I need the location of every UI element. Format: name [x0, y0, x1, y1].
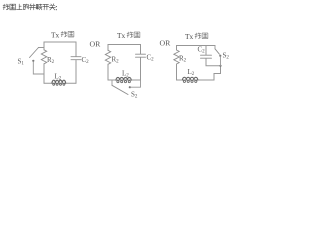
capacitor C2 (circuit 2) — [136, 54, 146, 57]
resistor R2 (circuit 1) — [41, 50, 46, 64]
capacitor C2 (circuit 3) — [201, 55, 212, 58]
wire right rail upper (circuit 1) — [75, 42, 77, 56]
capacitor C2 (circuit 1) — [71, 57, 81, 60]
wire right rail lower (circuit 1) — [75, 60, 77, 83]
svg-text:R2: R2 — [179, 54, 187, 63]
svg-text:C2: C2 — [198, 45, 206, 54]
wire top rail (circuit 1) — [44, 41, 76, 43]
svg-text:Tx: Tx — [185, 32, 194, 41]
wire C2 bottom connector (circuit 3) — [206, 59, 221, 66]
svg-text:R2: R2 — [47, 56, 55, 65]
wire top rail (circuit 3) — [177, 45, 216, 47]
svg-text:Tx: Tx — [117, 31, 126, 40]
label Tx 线圈 (circuit 1) — [51, 30, 74, 39]
switch S2 (circuit 3) — [215, 46, 221, 66]
capacitor C2 branch stub (circuit 3) — [205, 46, 207, 55]
inductor L2 (circuit 1) — [52, 80, 66, 83]
svg-text:S2: S2 — [131, 91, 138, 100]
inductor L2 (circuit 3) — [183, 77, 198, 80]
resistor R2 (circuit 3) — [174, 50, 179, 64]
wire top rail (circuit 2) — [108, 44, 141, 46]
svg-text:S2: S2 — [223, 51, 230, 60]
inductor L2 (circuit 2) — [116, 77, 131, 80]
wire bottom rail left (circuit 3) — [177, 66, 221, 80]
svg-text:OR: OR — [90, 40, 102, 49]
wire right rail upper (circuit 2) — [140, 45, 142, 54]
svg-text:S1: S1 — [18, 57, 25, 66]
wire bottom rail left (circuit 1) — [44, 82, 76, 84]
wire left rail lower (circuit 1) — [43, 64, 45, 83]
svg-text:R2: R2 — [112, 56, 120, 65]
wire left rail upper (circuit 1) — [43, 42, 45, 50]
svg-text:C2: C2 — [147, 53, 155, 62]
svg-text:Tx: Tx — [51, 30, 60, 39]
svg-text:C2: C2 — [82, 56, 90, 65]
wire left rail lower (circuit 3) — [176, 64, 178, 80]
switch S2 (circuit 2) — [112, 80, 141, 95]
wire left rail upper (circuit 3) — [176, 46, 178, 51]
svg-text:OR: OR — [160, 39, 172, 48]
label Tx 线圈 (circuit 3) — [185, 32, 208, 41]
label Tx 线圈 (circuit 2) — [117, 31, 140, 40]
wire bottom rail left (circuit 2) — [108, 79, 141, 81]
svg-text:L2: L2 — [122, 69, 129, 78]
heading text 线圈上的并联开关: — [3, 4, 56, 10]
wire left rail lower (circuit 2) — [107, 64, 109, 80]
resistor R2 (circuit 2) — [105, 50, 110, 64]
switch S1 (circuit 1) — [30, 48, 45, 75]
junction dot (circuit 3) — [219, 65, 221, 67]
wire left rail upper (circuit 2) — [107, 45, 109, 51]
wire right rail lower (circuit 2) — [140, 58, 142, 80]
svg-text:L2: L2 — [55, 72, 62, 81]
svg-text:L2: L2 — [188, 68, 195, 77]
